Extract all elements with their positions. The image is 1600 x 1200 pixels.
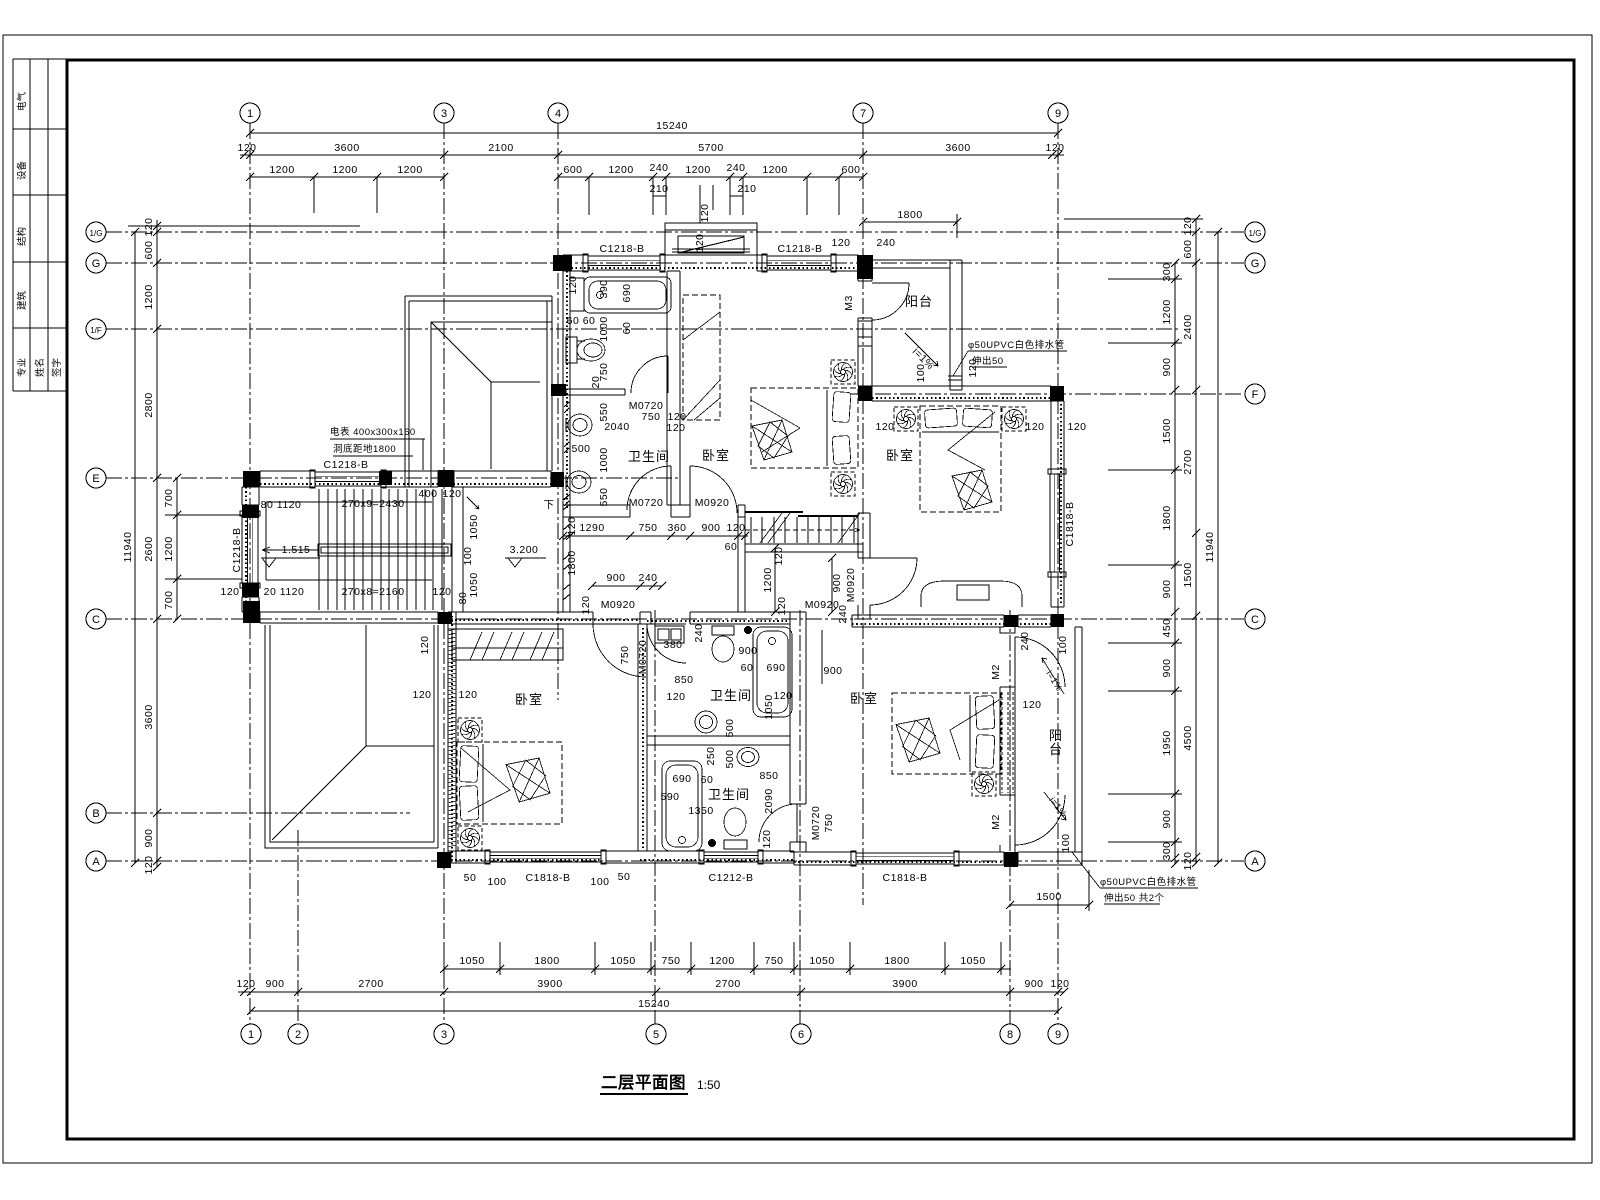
svg-text:850: 850 (674, 674, 693, 686)
svg-text:3900: 3900 (537, 978, 562, 990)
svg-text:姓名: 姓名 (34, 358, 46, 377)
svg-text:690: 690 (766, 662, 785, 674)
svg-text:120: 120 (699, 203, 711, 222)
svg-text:50: 50 (464, 872, 477, 884)
svg-text:M0720: M0720 (810, 806, 822, 841)
svg-text:1000: 1000 (598, 447, 610, 472)
svg-text:60: 60 (725, 541, 738, 553)
svg-text:270x9=2430: 270x9=2430 (341, 498, 404, 510)
svg-text:20 1120: 20 1120 (264, 586, 305, 598)
svg-text:伸出50 共2个: 伸出50 共2个 (1104, 892, 1165, 904)
svg-text:2400: 2400 (1182, 314, 1194, 339)
svg-text:9: 9 (1055, 108, 1061, 120)
svg-text:240: 240 (726, 162, 745, 174)
svg-text:120: 120 (236, 978, 255, 990)
svg-text:2700: 2700 (358, 978, 383, 990)
svg-text:120: 120 (875, 421, 894, 433)
svg-text:240: 240 (837, 604, 849, 623)
svg-text:390: 390 (598, 279, 610, 298)
svg-text:1800: 1800 (884, 955, 909, 967)
svg-text:120: 120 (143, 855, 155, 874)
svg-text:4500: 4500 (1182, 725, 1194, 750)
svg-text:15240: 15240 (656, 120, 688, 132)
svg-text:900: 900 (1161, 357, 1173, 376)
svg-text:120: 120 (220, 586, 239, 598)
svg-text:60: 60 (701, 774, 714, 786)
svg-text:900: 900 (831, 573, 843, 592)
svg-text:1200: 1200 (397, 164, 422, 176)
svg-text:120: 120 (831, 237, 850, 249)
svg-text:600: 600 (563, 164, 582, 176)
svg-text:750: 750 (638, 522, 657, 534)
svg-text:1200: 1200 (762, 164, 787, 176)
svg-text:1050: 1050 (468, 572, 480, 597)
svg-text:120: 120 (442, 488, 461, 500)
svg-text:M0920: M0920 (601, 599, 636, 611)
svg-text:C1212-B: C1212-B (709, 872, 754, 884)
svg-text:1/G: 1/G (1249, 229, 1262, 238)
svg-text:9: 9 (1055, 1029, 1061, 1041)
svg-text:1200: 1200 (685, 164, 710, 176)
svg-text:1200: 1200 (709, 955, 734, 967)
svg-text:1:50: 1:50 (697, 1078, 721, 1092)
svg-text:M3: M3 (843, 295, 855, 311)
svg-text:C1218-B: C1218-B (600, 243, 645, 255)
svg-text:2600: 2600 (143, 536, 155, 561)
svg-text:C1818-B: C1818-B (526, 872, 571, 884)
svg-text:120: 120 (773, 690, 792, 702)
svg-text:1/G: 1/G (90, 229, 103, 238)
svg-text:建筑: 建筑 (16, 290, 28, 310)
svg-text:120: 120 (761, 829, 773, 848)
svg-text:3: 3 (441, 108, 447, 120)
svg-text:120: 120 (666, 691, 685, 703)
svg-text:11940: 11940 (122, 532, 134, 563)
svg-text:M0920: M0920 (695, 497, 730, 509)
svg-text:1200: 1200 (608, 164, 633, 176)
svg-text:60 60: 60 60 (567, 315, 596, 327)
svg-text:1050: 1050 (809, 955, 834, 967)
svg-text:二层平面图: 二层平面图 (601, 1073, 686, 1092)
svg-text:500: 500 (724, 718, 736, 737)
svg-text:120: 120 (776, 596, 788, 615)
svg-text:1800: 1800 (897, 209, 922, 221)
svg-text:阳台: 阳台 (905, 294, 933, 309)
svg-text:A: A (92, 856, 100, 868)
svg-text:卫生间: 卫生间 (628, 449, 670, 464)
svg-text:M0920: M0920 (805, 599, 840, 611)
svg-text:550: 550 (598, 487, 610, 506)
svg-text:卧室: 卧室 (515, 692, 543, 707)
svg-text:1500: 1500 (1182, 562, 1194, 587)
svg-text:C: C (1251, 614, 1259, 626)
svg-text:120: 120 (567, 275, 579, 294)
svg-text:900: 900 (1161, 579, 1173, 598)
svg-text:120: 120 (580, 595, 592, 614)
svg-text:500: 500 (724, 749, 736, 768)
svg-text:120: 120 (1045, 142, 1064, 154)
axis circles top (240, 103, 1068, 123)
svg-text:80: 80 (457, 592, 469, 605)
svg-text:F: F (1252, 389, 1259, 401)
svg-text:50: 50 (618, 871, 631, 883)
svg-text:300: 300 (1161, 262, 1173, 281)
svg-text:120: 120 (694, 233, 706, 252)
svg-text:3: 3 (441, 1029, 447, 1041)
svg-text:600: 600 (841, 164, 860, 176)
title strip vertical text (16, 91, 63, 377)
svg-text:1800: 1800 (534, 955, 559, 967)
svg-text:120: 120 (773, 546, 785, 565)
svg-text:60: 60 (621, 322, 633, 335)
svg-text:5: 5 (653, 1029, 659, 1041)
svg-text:3.200: 3.200 (510, 544, 539, 556)
svg-text:M2: M2 (990, 814, 1002, 830)
svg-text:φ50UPVC白色排水管: φ50UPVC白色排水管 (1100, 876, 1197, 888)
svg-text:电表 400x300x160: 电表 400x300x160 (330, 426, 416, 438)
svg-text:700: 700 (163, 590, 175, 609)
svg-text:阳: 阳 (1049, 728, 1063, 743)
title strip table (13, 59, 67, 391)
svg-text:1200: 1200 (143, 284, 155, 309)
svg-text:C1218-B: C1218-B (324, 459, 369, 471)
svg-text:120: 120 (143, 217, 155, 236)
svg-text:120: 120 (419, 635, 431, 654)
svg-text:380: 380 (663, 639, 682, 651)
svg-text:120: 120 (458, 689, 477, 701)
svg-text:900: 900 (738, 645, 757, 657)
svg-text:15240: 15240 (638, 998, 670, 1010)
svg-text:1950: 1950 (1161, 730, 1173, 755)
axis circles left (86, 222, 106, 871)
svg-text:1200: 1200 (269, 164, 294, 176)
svg-text:700: 700 (163, 488, 175, 507)
svg-text:100: 100 (462, 546, 474, 565)
svg-text:270x8=2160: 270x8=2160 (341, 586, 404, 598)
svg-text:B: B (92, 808, 99, 820)
svg-text:1800: 1800 (1161, 505, 1173, 530)
svg-text:120: 120 (1182, 216, 1194, 235)
svg-text:1/F: 1/F (90, 326, 102, 335)
svg-text:750: 750 (619, 645, 631, 664)
svg-text:900: 900 (823, 665, 842, 677)
svg-text:结构: 结构 (16, 227, 28, 246)
svg-text:M0720: M0720 (637, 640, 649, 675)
svg-text:500: 500 (571, 443, 590, 455)
svg-text:600: 600 (1182, 239, 1194, 258)
svg-text:下: 下 (544, 499, 555, 511)
svg-text:卫生间: 卫生间 (708, 787, 750, 802)
svg-text:洞底距地1800: 洞底距地1800 (333, 443, 396, 455)
svg-text:120: 120 (1067, 421, 1086, 433)
svg-text:2090: 2090 (763, 788, 775, 813)
svg-text:1200: 1200 (762, 567, 774, 592)
svg-text:3600: 3600 (945, 142, 970, 154)
svg-text:550: 550 (598, 402, 610, 421)
svg-text:210: 210 (649, 183, 668, 195)
svg-text:3900: 3900 (892, 978, 917, 990)
svg-text:设备: 设备 (16, 160, 28, 180)
svg-text:C1218-B: C1218-B (231, 528, 243, 573)
svg-text:120: 120 (237, 142, 256, 154)
svg-text:2700: 2700 (715, 978, 740, 990)
svg-text:C1218-B: C1218-B (778, 243, 823, 255)
svg-text:φ50UPVC白色排水管: φ50UPVC白色排水管 (968, 339, 1065, 351)
svg-text:80 1120: 80 1120 (261, 499, 302, 511)
svg-text:690: 690 (672, 773, 691, 785)
svg-text:750: 750 (641, 411, 660, 423)
svg-text:120: 120 (666, 422, 685, 434)
svg-text:120: 120 (1025, 421, 1044, 433)
svg-text:1.515: 1.515 (282, 544, 311, 556)
svg-text:1200: 1200 (1161, 299, 1173, 324)
svg-text:900: 900 (1161, 658, 1173, 677)
svg-text:1800: 1800 (566, 550, 578, 575)
svg-text:M0720: M0720 (629, 497, 664, 509)
svg-text:E: E (92, 473, 99, 485)
axis circles right (1245, 222, 1265, 871)
svg-text:1200: 1200 (163, 536, 175, 561)
svg-text:60: 60 (741, 662, 754, 674)
svg-text:240: 240 (1019, 631, 1031, 650)
axis circles bottom (241, 1024, 1068, 1044)
svg-text:1290: 1290 (579, 522, 604, 534)
svg-text:100: 100 (487, 876, 506, 888)
svg-text:专业: 专业 (16, 358, 28, 377)
svg-text:A: A (1251, 856, 1259, 868)
svg-text:8: 8 (1007, 1029, 1013, 1041)
svg-text:卧室: 卧室 (886, 448, 914, 463)
svg-text:1050: 1050 (763, 694, 775, 719)
svg-text:210: 210 (737, 183, 756, 195)
svg-text:240: 240 (638, 572, 657, 584)
svg-text:900: 900 (265, 978, 284, 990)
svg-text:750: 750 (764, 955, 783, 967)
svg-text:850: 850 (759, 770, 778, 782)
svg-text:3600: 3600 (143, 704, 155, 729)
svg-text:G: G (92, 258, 101, 270)
svg-text:240: 240 (876, 237, 895, 249)
svg-text:900: 900 (1024, 978, 1043, 990)
svg-text:卧室: 卧室 (702, 448, 730, 463)
svg-text:750: 750 (823, 813, 835, 832)
svg-text:2800: 2800 (143, 392, 155, 417)
svg-text:240: 240 (693, 623, 705, 642)
svg-text:600: 600 (143, 240, 155, 259)
svg-text:100: 100 (1057, 635, 1069, 654)
svg-text:4: 4 (555, 108, 561, 120)
svg-text:900: 900 (606, 572, 625, 584)
axis grid dash-dot lines (106, 123, 1244, 1024)
svg-text:1500: 1500 (1036, 891, 1061, 903)
svg-text:2100: 2100 (488, 142, 513, 154)
svg-text:1200: 1200 (332, 164, 357, 176)
svg-text:2: 2 (295, 1029, 301, 1041)
svg-text:1500: 1500 (1161, 418, 1173, 443)
svg-text:100: 100 (590, 876, 609, 888)
svg-text:卫生间: 卫生间 (710, 688, 752, 703)
svg-text:6: 6 (798, 1029, 804, 1041)
svg-text:690: 690 (621, 283, 633, 302)
svg-text:900: 900 (701, 522, 720, 534)
svg-text:台: 台 (1049, 742, 1063, 757)
svg-text:1: 1 (247, 108, 253, 120)
svg-text:120: 120 (1050, 978, 1069, 990)
svg-text:3600: 3600 (334, 142, 359, 154)
svg-text:360: 360 (667, 522, 686, 534)
svg-text:300: 300 (1161, 841, 1173, 860)
svg-text:G: G (1251, 258, 1260, 270)
svg-text:240: 240 (649, 162, 668, 174)
svg-text:11940: 11940 (1204, 532, 1216, 563)
dimension system (128, 129, 1222, 1015)
svg-text:C: C (92, 614, 100, 626)
svg-text:C1818-B: C1818-B (1064, 502, 1076, 547)
svg-text:120: 120 (566, 516, 578, 535)
svg-text:2040: 2040 (604, 421, 629, 433)
svg-text:1050: 1050 (610, 955, 635, 967)
svg-text:250: 250 (705, 746, 717, 765)
svg-text:450: 450 (1161, 618, 1173, 637)
svg-text:5700: 5700 (698, 142, 723, 154)
svg-text:900: 900 (1161, 809, 1173, 828)
svg-text:590: 590 (660, 791, 679, 803)
svg-text:120: 120 (412, 689, 431, 701)
svg-text:1050: 1050 (459, 955, 484, 967)
svg-text:1: 1 (248, 1029, 254, 1041)
svg-text:900: 900 (143, 828, 155, 847)
svg-text:1050: 1050 (960, 955, 985, 967)
svg-text:2700: 2700 (1182, 449, 1194, 474)
svg-text:100: 100 (1060, 833, 1072, 852)
svg-text:签字: 签字 (51, 358, 63, 377)
svg-text:120: 120 (432, 586, 451, 598)
svg-text:400: 400 (418, 488, 437, 500)
svg-text:750: 750 (661, 955, 680, 967)
svg-text:M0920: M0920 (845, 568, 857, 603)
svg-text:M2: M2 (990, 664, 1002, 680)
svg-text:7: 7 (860, 108, 866, 120)
svg-text:1350: 1350 (688, 805, 713, 817)
svg-text:1000: 1000 (598, 316, 610, 341)
svg-text:120: 120 (726, 522, 745, 534)
svg-text:120: 120 (1022, 699, 1041, 711)
svg-text:卧室: 卧室 (850, 691, 878, 706)
svg-text:20: 20 (590, 376, 602, 389)
svg-text:伸出50: 伸出50 (972, 355, 1004, 367)
svg-text:1050: 1050 (468, 514, 480, 539)
svg-text:电气: 电气 (16, 91, 28, 111)
svg-text:120: 120 (1182, 851, 1194, 870)
svg-text:C1818-B: C1818-B (883, 872, 928, 884)
